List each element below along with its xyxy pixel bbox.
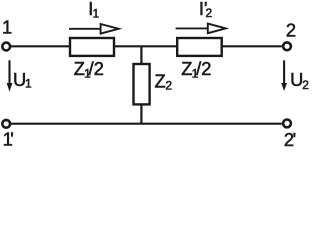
- terminal 2' (bottom-right circle): [283, 120, 291, 128]
- svg-text:Z1/2: Z1/2: [181, 58, 211, 81]
- wire: terminal 1 to left Z1/2 box: [11, 45, 71, 47]
- wire: right Z1/2 box to terminal 2: [221, 45, 282, 47]
- voltage arrow U1 (down, filled head): [7, 60, 13, 91]
- svg-text:1: 1: [2, 16, 12, 37]
- svg-text:2: 2: [286, 19, 296, 40]
- voltage arrow U2 (down, filled head): [281, 60, 287, 91]
- terminal 2 (top-right circle): [283, 42, 291, 50]
- terminal 1 (top-left circle): [2, 43, 10, 51]
- wire: between the two Z1/2 boxes: [114, 45, 178, 47]
- svg-text:1': 1': [3, 129, 14, 150]
- wire: Z2 box down to bottom rail: [140, 104, 142, 124]
- impedance box Z2 (shunt): [134, 64, 150, 104]
- svg-text:2': 2': [284, 129, 296, 150]
- wire: bottom rail from 1' to 2': [11, 123, 282, 125]
- current arrow I1 (line + open head): [69, 24, 119, 34]
- svg-text:Z1/2: Z1/2: [74, 58, 104, 81]
- wire: top node down to Z2 box: [140, 47, 142, 65]
- current arrow I'2 (line + open head): [176, 24, 226, 34]
- terminal 1' (bottom-left circle): [2, 120, 10, 128]
- impedance box Z1/2 (left): [70, 38, 114, 56]
- impedance box Z1/2 (right): [177, 38, 222, 56]
